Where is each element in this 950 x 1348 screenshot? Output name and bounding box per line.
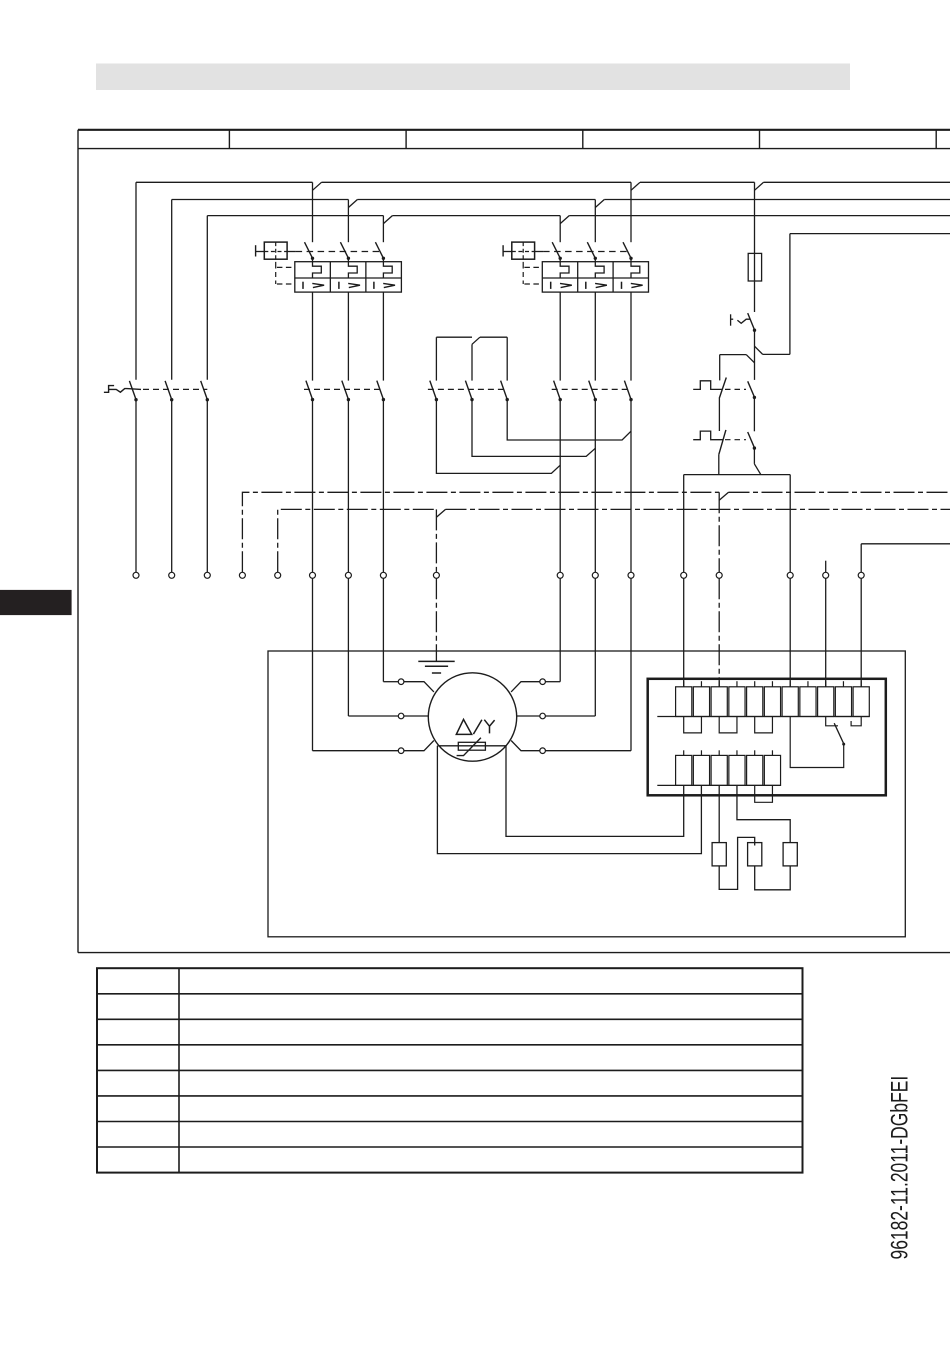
motor delta/wye marking [456,719,494,734]
terminal strip upper [657,681,869,716]
wires resistor chain [719,785,790,889]
wire branch to control line [755,234,950,380]
wires K1 to motor terminals U1 V1 W1 [313,400,399,751]
motor stub wires left [404,682,434,751]
wire bus L3 [207,216,950,224]
motor terminal circles left [398,679,404,754]
wires K2 to motor terminals U2 V2 W2 [560,400,631,751]
wires between pressure switches [719,398,754,432]
resistor R2 [748,843,762,866]
wires pressure chain to terminals [684,449,791,573]
motor protection breaker Q3 (group 2) [503,242,648,292]
auxiliary switch in terminal box [790,717,861,768]
dash-dot field wire N [242,492,950,572]
stub above spare terminal [825,561,827,573]
title bar [96,64,850,91]
compressor enclosure box [268,651,905,937]
wire L3 drop to main switch Q1 [206,216,208,380]
contactor K2 [552,292,633,401]
upper strip jumper links [684,717,773,733]
wires K3 poles to phase columns [436,400,631,474]
drawing frame [78,130,950,953]
resistor R3 [783,843,797,866]
wires bus taps down to breaker Q3 [560,182,631,242]
thermal cutout switch [731,313,757,332]
motor protection breaker Q2 (group 1) [256,242,402,292]
wire bus L1 [136,182,950,190]
page index tab [0,590,72,615]
legend table [97,968,803,1172]
earth wire [435,578,437,661]
header row cell dividers [229,130,936,149]
svg-text:96182-11.2011-DGbFEI: 96182-11.2011-DGbFEI [887,1076,913,1260]
wire bus L2 [172,200,950,208]
wires motor right side to phase columns [545,682,631,751]
pressure switch B2 [693,430,756,455]
motor PTC thermistor [437,738,506,756]
star contactor K3 with star-point bridge [428,337,509,401]
wire L1 drop to main switch Q1 [135,182,137,379]
terminal box X1 [648,679,886,796]
wire branch to parallel contact [720,355,755,381]
wires Q1 to supply terminals [136,400,207,572]
motor stub wires right [511,682,540,751]
motor terminal circles right [540,679,546,754]
ground symbol [418,661,454,673]
wire from page right at mid level [861,544,950,573]
dash-dot field wire PE [278,509,950,572]
wires terminals to box [684,578,862,687]
fuse F1 [748,182,761,312]
PTC sensor wires to terminal box [437,746,701,854]
contactor K1 [304,292,385,401]
lower strip jumper link [755,785,773,802]
wires bus taps down to breaker Q2 [313,182,384,242]
pressure switch B1 [693,378,756,400]
wire L2 drop to main switch Q1 [171,200,173,380]
motor M1 circle [428,673,516,761]
resistor R1 [712,843,726,866]
terminal strip lower [657,750,780,785]
terminal connection points [133,572,864,578]
main switch Q1 [104,381,209,402]
